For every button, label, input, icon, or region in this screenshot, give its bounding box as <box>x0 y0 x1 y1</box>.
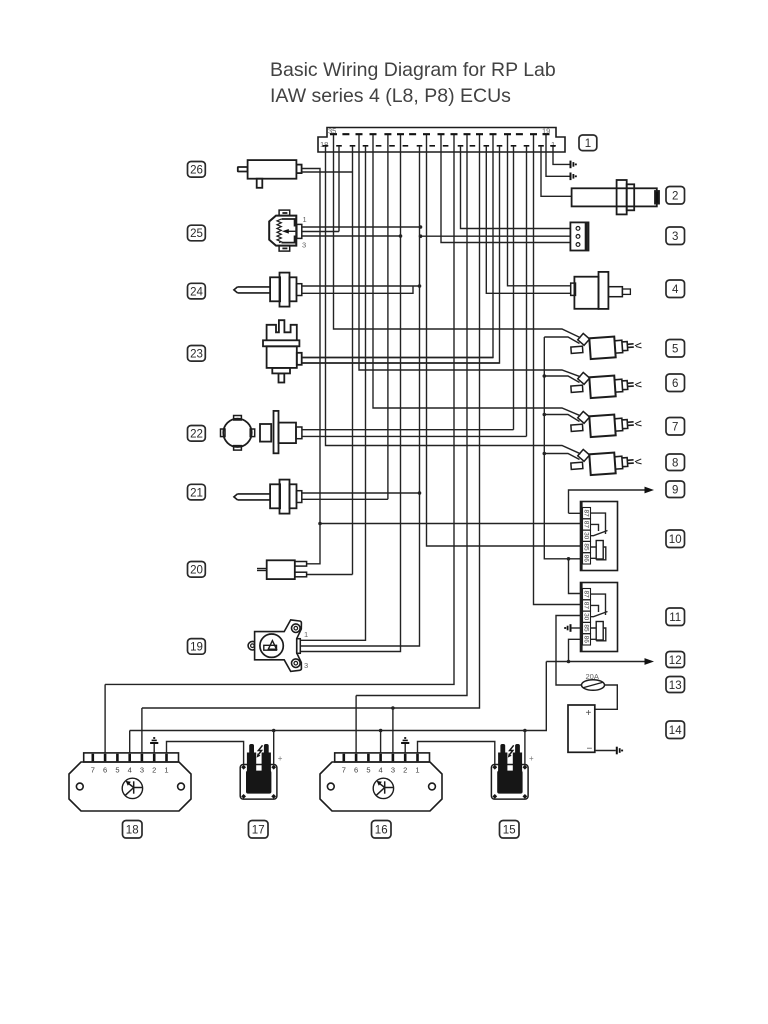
box 14 <box>666 721 685 739</box>
TPS wire 2 to ECU <box>302 146 339 232</box>
svg-text:30: 30 <box>583 532 590 540</box>
connector top pin caps <box>330 133 550 135</box>
relay 11 internals <box>591 594 606 615</box>
injector 7 <box>570 408 642 439</box>
svg-text:24: 24 <box>190 286 203 298</box>
wire pin to comp4 upper <box>508 135 571 286</box>
arrow line to 9 (fuel pump) <box>569 490 646 513</box>
svg-text:1: 1 <box>585 138 591 150</box>
wire 26b to comp20 bottom pin (joins pin stem) <box>302 172 353 575</box>
module 18 pin4 wire <box>129 731 131 753</box>
wire 24 to sensor common (double) <box>302 286 420 293</box>
svg-text:23: 23 <box>190 349 203 361</box>
box 2 <box>666 187 685 205</box>
battery ground symbol <box>617 747 622 755</box>
component 2 lambda sensor <box>572 180 659 214</box>
wire pin to module18 pin6 <box>105 135 454 684</box>
junction dot 12-line <box>567 660 571 664</box>
svg-text:17: 17 <box>252 825 265 837</box>
svg-text:20A: 20A <box>586 672 599 681</box>
svg-text:86: 86 <box>583 555 590 563</box>
svg-text:7: 7 <box>672 422 678 434</box>
svg-text:87: 87 <box>583 590 590 598</box>
svg-text:26: 26 <box>190 165 203 177</box>
box 20 <box>188 562 206 578</box>
wire pin to comp4 lower <box>486 146 570 293</box>
svg-text:18: 18 <box>320 140 328 149</box>
wire pin to MAP pin3 <box>300 135 400 652</box>
svg-text:2: 2 <box>403 766 407 775</box>
junction dot 24/common <box>418 284 422 288</box>
svg-text:19: 19 <box>190 642 203 654</box>
wire pin18 to injector8 signal <box>326 146 581 454</box>
relay 10 internals <box>591 513 606 534</box>
module 18 pin ticks <box>93 754 167 762</box>
box 8 <box>666 454 685 471</box>
injector 5 <box>570 330 642 361</box>
wire 21b to ECU <box>302 135 388 499</box>
svg-text:4: 4 <box>672 284 679 296</box>
wire relay11-85 to ground <box>571 627 581 629</box>
svg-text:10: 10 <box>669 534 682 546</box>
svg-text:5: 5 <box>366 766 370 775</box>
svg-text:15: 15 <box>503 825 516 837</box>
svg-text:3: 3 <box>304 661 308 670</box>
title <box>270 59 556 107</box>
module 18 pin6 wire <box>104 684 106 753</box>
svg-text:18: 18 <box>126 825 139 837</box>
svg-text:22: 22 <box>190 429 203 441</box>
svg-text:5: 5 <box>115 766 119 775</box>
component 25 TPS <box>269 210 302 251</box>
wire pin to module16 pin6 <box>356 135 467 696</box>
left label boxes <box>188 162 206 655</box>
svg-text:85: 85 <box>583 624 590 632</box>
module 16 pin6 wire <box>355 696 357 753</box>
wire +12 feed down to bus <box>130 662 547 731</box>
wire relay11-30 from battery feed <box>556 616 582 686</box>
svg-text:4: 4 <box>379 766 383 775</box>
comp3 wire pin1 <box>461 146 571 229</box>
bus junction dots <box>543 374 547 378</box>
module 18 pin3 wire <box>141 708 143 753</box>
right box numbers <box>669 191 682 738</box>
box 24 <box>188 283 206 299</box>
box 17 <box>249 821 269 839</box>
box 7 <box>666 418 685 436</box>
box label 1 (ECU) <box>579 135 597 151</box>
module 16 pin1 wire to coil 15 <box>418 742 495 766</box>
wire pin to comp23 upper <box>302 135 493 358</box>
junction dot comp3-2/common <box>419 234 423 238</box>
module 16 ignition module <box>320 753 442 811</box>
box 19 <box>188 639 206 655</box>
relay 10 pin labels 87/87/30/85/86 <box>583 509 590 562</box>
injector supply bus <box>544 337 580 559</box>
wire 21a to common <box>302 492 420 494</box>
component 19 MAP sensor <box>248 620 301 672</box>
module 18 pin1 wire to coil 17 <box>167 742 244 766</box>
injector 8 <box>570 446 642 477</box>
svg-text:1: 1 <box>304 630 308 639</box>
comp3 wire pin2 (to common) <box>421 235 571 237</box>
component 26 idle actuator <box>238 160 302 188</box>
ground symbol g2 <box>571 173 576 181</box>
bus stub injector 8 <box>544 454 579 460</box>
coil 17 <box>240 744 283 799</box>
box 10 <box>666 530 685 548</box>
junction dot 26a/relay10-87b <box>318 522 322 526</box>
relay 11 pin labels 87/87/30/85/86 <box>583 590 590 643</box>
svg-text:5: 5 <box>672 344 678 356</box>
TPS wire 3 to 5V ref <box>302 235 401 237</box>
module 18 transistor symbol <box>125 781 142 795</box>
TPS wiper arrow <box>288 230 297 232</box>
component 23 aux air valve <box>263 320 302 382</box>
box 4 <box>666 280 685 298</box>
module 18 pin numbers <box>91 766 169 775</box>
svg-text:20: 20 <box>190 565 203 577</box>
module 16 pin ticks <box>344 754 418 762</box>
box 13 <box>666 677 685 693</box>
component 22 speed sensor <box>221 411 302 453</box>
wire 23a <box>302 357 493 359</box>
module 16 pin3 wire <box>392 708 394 753</box>
component 14 battery <box>568 705 595 752</box>
wire pin to comp23 lower <box>302 146 500 363</box>
relay 11 <box>581 583 618 652</box>
wire 22b to ECU <box>302 146 527 436</box>
junction dot bus/relay11 feed <box>567 557 571 561</box>
junction dot TPS3/MAP3 <box>399 234 403 238</box>
relay 10 <box>581 502 618 571</box>
TPS potentiometer zigzag <box>277 219 281 243</box>
box 11 <box>666 608 685 626</box>
svg-text:14: 14 <box>669 725 682 737</box>
svg-text:2: 2 <box>152 766 156 775</box>
bottom dashes (unconnected pins) <box>376 145 475 147</box>
svg-text:12: 12 <box>669 655 682 667</box>
TPS inner C outline <box>282 219 295 243</box>
wire pin(sig6) to injector6 signal <box>359 135 581 377</box>
svg-text:Basic Wiring Diagram for RP La: Basic Wiring Diagram for RP Lab <box>270 59 556 81</box>
module 16 pin2 ground <box>404 744 406 753</box>
svg-text:+: + <box>586 708 592 719</box>
svg-text:11: 11 <box>669 612 681 624</box>
box 16 <box>372 821 392 839</box>
svg-text:13: 13 <box>669 680 682 692</box>
svg-text:+: + <box>278 754 283 763</box>
component 4 air temp sensor <box>571 272 631 309</box>
svg-text:6: 6 <box>354 766 358 775</box>
wire relay11-86 to 12-line <box>569 639 581 661</box>
wire fuse to battery + <box>595 685 618 709</box>
wire battery - to ground <box>595 750 616 752</box>
svg-text:1: 1 <box>164 766 168 775</box>
wire 26a to comp20 top pin <box>302 169 320 564</box>
ground symbol g1 <box>571 161 576 169</box>
coil 17 + wire <box>273 731 275 766</box>
module 16 pin4 wire <box>380 731 382 753</box>
wire pin(sig7) to injector7 signal <box>373 135 581 416</box>
arrow line to 12 <box>546 661 645 663</box>
ECU connector body <box>318 128 565 153</box>
box 3 <box>666 227 685 245</box>
svg-text:+: + <box>529 754 534 763</box>
wire 26b vertical to comp20 bottom pin <box>352 146 354 575</box>
box 22 <box>188 426 206 442</box>
component 21 temp sensor 2 <box>234 480 302 514</box>
top dashes (unconnected pins) <box>342 133 523 135</box>
wire 23b <box>302 362 500 364</box>
svg-text:3: 3 <box>140 766 144 775</box>
junction dot TPS1/common <box>419 225 423 229</box>
svg-text:85: 85 <box>583 543 590 551</box>
connector bottom pin caps <box>323 145 556 147</box>
svg-text:87: 87 <box>583 521 590 529</box>
wire pin to relay10 coil 85 <box>427 135 581 546</box>
box 25 <box>188 225 206 241</box>
fuse 20A <box>582 680 605 691</box>
bus stub injector 6 <box>544 376 579 383</box>
svg-text:4: 4 <box>128 766 132 775</box>
wire pin to ground2 <box>546 135 570 176</box>
coil 15 + wire <box>524 731 526 766</box>
coil 15 <box>491 744 534 799</box>
module 18 pin2 ground <box>153 744 155 753</box>
box 18 <box>123 821 143 839</box>
wire pin to relay11 87b <box>534 135 581 605</box>
svg-text:7: 7 <box>91 766 95 775</box>
svg-text:1: 1 <box>303 215 307 224</box>
bottom box numbers <box>126 825 516 837</box>
box 21 <box>188 484 206 500</box>
bottom label boxes <box>123 821 520 839</box>
module 16 transistor symbol <box>376 781 393 795</box>
svg-text:6: 6 <box>672 378 678 390</box>
svg-text:6: 6 <box>103 766 107 775</box>
svg-text:3: 3 <box>302 241 306 250</box>
injector 6 <box>570 369 642 400</box>
svg-text:IAW series 4 (L8, P8) ECUs: IAW series 4 (L8, P8) ECUs <box>270 85 511 107</box>
wire pin35 to injector5 signal <box>334 135 581 338</box>
svg-text:21: 21 <box>190 487 203 499</box>
box 9 <box>666 481 685 498</box>
component 20 injector resistor <box>257 560 307 579</box>
svg-text:−: − <box>587 744 593 755</box>
svg-text:30: 30 <box>583 613 590 621</box>
module 16 pin numbers <box>342 766 420 775</box>
right label boxes <box>666 187 685 739</box>
box 12 <box>666 652 685 668</box>
svg-text:25: 25 <box>190 228 203 240</box>
svg-text:3: 3 <box>672 231 678 243</box>
wire pin to comp2 <box>541 146 572 196</box>
svg-text:87: 87 <box>583 602 590 610</box>
relay11 ground symbol <box>565 624 570 632</box>
wire 22a to ECU <box>302 146 514 430</box>
box 15 <box>500 821 520 839</box>
box 23 <box>188 346 206 362</box>
component 3 connector <box>570 222 588 250</box>
box 6 <box>666 374 685 392</box>
comp3 wire pin3 <box>441 135 570 243</box>
TPS wire 1 to sensor common <box>302 226 421 228</box>
svg-text:9: 9 <box>672 485 678 497</box>
bus stub injector 7 <box>544 415 579 422</box>
left box numbers <box>190 165 203 654</box>
svg-text:2: 2 <box>672 191 678 203</box>
wire pin to MAP pin1 <box>300 146 365 640</box>
svg-text:87: 87 <box>583 509 590 517</box>
svg-text:1: 1 <box>415 766 419 775</box>
svg-text:8: 8 <box>672 458 678 470</box>
svg-text:16: 16 <box>375 825 388 837</box>
wire relay10-86 down to relay11-87a <box>569 559 581 594</box>
svg-text:3: 3 <box>391 766 395 775</box>
box 5 <box>666 340 685 358</box>
wire relay10 87b line <box>320 523 581 525</box>
junction dot 21/common <box>418 491 422 495</box>
wire pin to modules pin3 <box>142 135 480 708</box>
module 18 ignition module <box>69 753 191 811</box>
svg-text:86: 86 <box>583 636 590 644</box>
svg-text:7: 7 <box>342 766 346 775</box>
wire common sensor ground pin to MAP pin2 <box>300 146 419 646</box>
component 24 temp sensor <box>234 273 302 307</box>
wire pin1 to ground1 <box>553 146 570 164</box>
box 26 <box>188 162 206 178</box>
